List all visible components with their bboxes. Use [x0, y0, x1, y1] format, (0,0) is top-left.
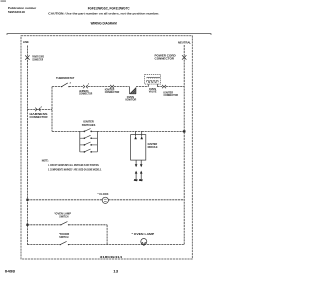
svg-text:SWITCHES: SWITCHES: [82, 123, 96, 127]
svg-text:MODULE: MODULE: [148, 145, 158, 149]
harness connector J2 on thermostat row: [79, 84, 92, 96]
door switch S6: [59, 232, 69, 245]
right lead with connector arrows: [140, 160, 142, 164]
left lead with connector arrows: [135, 160, 137, 164]
rails: [79, 131, 81, 152]
wire L1 vertical (LINE bus): [26, 46, 28, 245]
svg-text:13: 13: [113, 270, 118, 274]
header separator rule: [7, 34, 211, 35]
svg-text:318049414: 318049414: [100, 255, 123, 259]
spark electrode leads below module: [134, 160, 143, 181]
svg-text:NEUTRAL: NEUTRAL: [178, 40, 191, 44]
rung 3 with switch: [80, 142, 98, 145]
igniter module U1: [131, 131, 158, 160]
diagram border frame: [21, 36, 192, 259]
wire module row: [52, 130, 184, 132]
power cord connector P2 (neutral side): [182, 55, 186, 59]
wire branch from LINE to thermostat riser: [27, 108, 52, 110]
svg-text:2. COMPONENTS MARKED * ARE USE: 2. COMPONENTS MARKED * ARE USED ON SOME …: [48, 167, 102, 171]
junction at neutral and module row: [183, 130, 186, 132]
svg-text:CONNECTOR: CONNECTOR: [30, 115, 48, 119]
harness connector J1 on branch: [35, 108, 40, 112]
wire clock row: [27, 199, 184, 201]
wire neutral vertical (NEUTRAL bus): [183, 45, 185, 245]
note block: [42, 159, 102, 172]
oven lamp switch S5: [54, 212, 71, 226]
oven ignitor E1 (hot surface igniter): [126, 87, 137, 102]
wire oven lamp switch row: [27, 225, 107, 245]
svg-text:1. CIRCUIT SHOWN WITH ALL SWIT: 1. CIRCUIT SHOWN WITH ALL SWITCHES IN OF…: [48, 163, 99, 167]
svg-text:WIRING DIAGRAM: WIRING DIAGRAM: [91, 21, 117, 25]
wire door switch / lamp row: [27, 244, 184, 246]
igniter connector J3: [105, 85, 120, 94]
svg-text:SWITCH: SWITCH: [59, 235, 68, 239]
rung 2 with switch: [80, 135, 98, 138]
svg-text:CONNECTOR: CONNECTOR: [155, 57, 175, 61]
svg-text:VALVE: VALVE: [149, 90, 157, 94]
igniter connector J4: [162, 85, 178, 97]
svg-text:CONNECTOR: CONNECTOR: [105, 90, 120, 94]
wire riser to thermostat row: [51, 87, 53, 132]
thermostat TH1: [56, 76, 75, 87]
wire thermostat row: [52, 86, 184, 88]
igniter switches S1-S4 bank: [80, 120, 98, 153]
oven lamp DS1: [132, 232, 155, 245]
page header publication number: [1, 0, 37, 14]
svg-text:CONNECTOR: CONNECTOR: [32, 58, 43, 62]
rung 1 with switch: [80, 129, 98, 132]
oven valve L1 (gas valve solenoid): [145, 75, 161, 94]
junction lamp switch row on LINE bus: [26, 224, 28, 226]
clock M1: [98, 192, 110, 203]
module pin top-right with plug arrow: [141, 131, 143, 136]
rung 4 with switch: [80, 149, 98, 152]
svg-text:* OVEN LAMP: * OVEN LAMP: [132, 232, 155, 236]
junction clock row on LINE bus: [26, 199, 28, 201]
svg-text:CONNECTOR: CONNECTOR: [79, 92, 92, 96]
svg-text:THERMOSTAT: THERMOSTAT: [56, 76, 75, 80]
svg-text:5995320118: 5995320118: [8, 10, 25, 14]
svg-text:0498: 0498: [5, 270, 15, 274]
svg-text:LINE: LINE: [23, 40, 29, 44]
svg-text:CAUTION: Use the part number o: CAUTION: Use the part number on all orde…: [48, 12, 159, 16]
power cord connector P1 (line side): [25, 55, 29, 59]
svg-text:CONNECTOR: CONNECTOR: [164, 93, 179, 97]
svg-text:NOTE:: NOTE:: [42, 159, 49, 163]
svg-text:SWITCH: SWITCH: [59, 215, 68, 219]
svg-text:FGF319WGSC, FGF319WGTC: FGF319WGSC, FGF319WGTC: [88, 7, 130, 11]
svg-text:* CLOCK: * CLOCK: [98, 192, 110, 196]
svg-text:IGNITOR: IGNITOR: [126, 98, 137, 102]
module pin top-left with plug arrow: [135, 131, 137, 136]
